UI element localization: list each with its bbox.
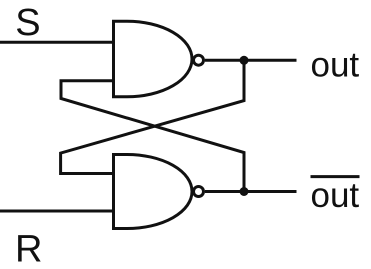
- svg-text:out: out: [311, 45, 360, 84]
- svg-text:S: S: [15, 2, 40, 44]
- svg-text:out: out: [311, 176, 360, 215]
- svg-text:R: R: [15, 228, 42, 269]
